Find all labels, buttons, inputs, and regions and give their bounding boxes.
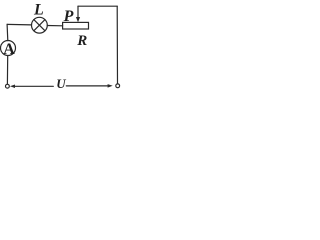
ammeter A: [1, 41, 16, 56]
wire top horizontal: [78, 5, 117, 7]
svg-text:A: A: [3, 41, 15, 58]
svg-text:P: P: [63, 8, 74, 25]
U arrow left: [10, 85, 53, 89]
wire top-left horizontal: [7, 23, 31, 26]
svg-text:R: R: [76, 33, 87, 49]
svg-text:U: U: [56, 76, 66, 91]
slider arrow P: [76, 6, 80, 22]
resistor R (rheostat body): [63, 22, 89, 29]
U arrow right: [66, 84, 112, 88]
terminal right: [116, 84, 120, 88]
wire left vertical (corner to ammeter): [6, 24, 9, 40]
lamp L: [32, 17, 48, 33]
svg-text:L: L: [33, 2, 44, 19]
wire right vertical: [116, 6, 118, 84]
wire ammeter to left terminal: [6, 56, 8, 85]
wire lamp to rheostat: [47, 25, 62, 27]
terminal left: [6, 84, 10, 88]
